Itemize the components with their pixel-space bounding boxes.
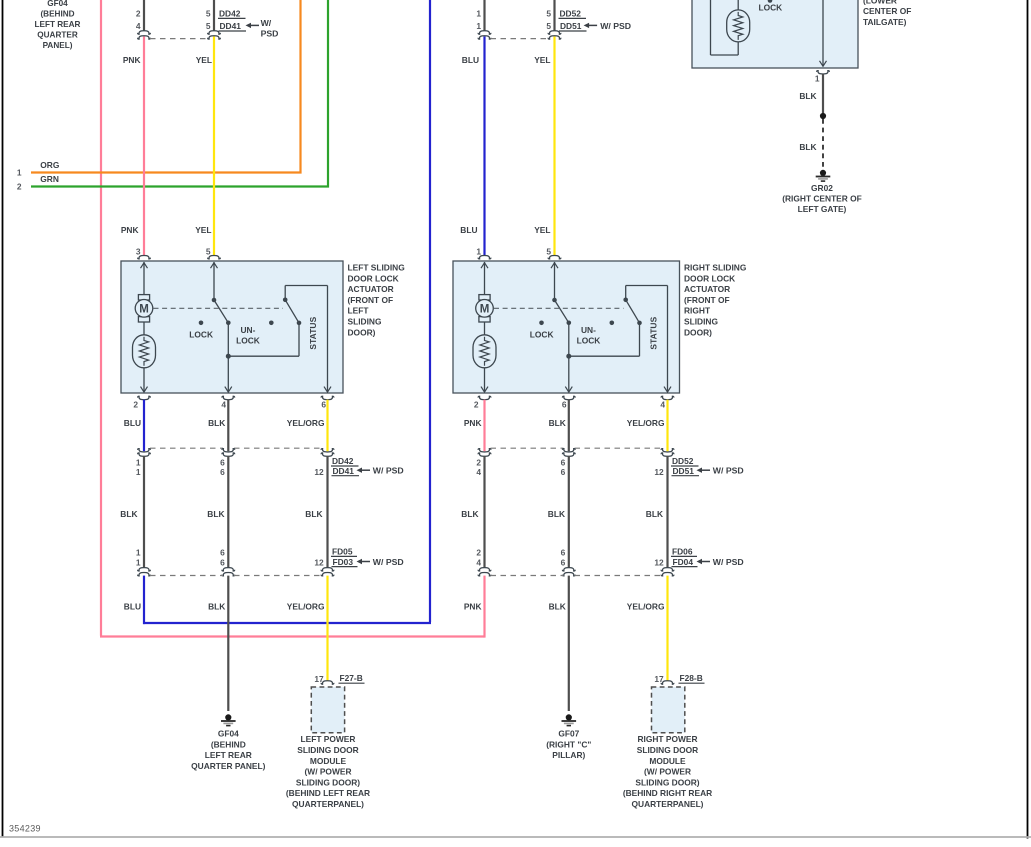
svg-text:YEL: YEL [195, 225, 211, 235]
wire BLK dashed to GR02 [822, 119, 824, 168]
svg-text:W/ PSD: W/ PSD [713, 466, 744, 476]
pin 5 label right [546, 246, 551, 256]
svg-text:LEFT POWER: LEFT POWER [301, 734, 356, 744]
connector row FD05 glyph b [222, 568, 235, 576]
lock switch pivot right [552, 298, 557, 303]
svg-text:DOOR): DOOR) [348, 327, 376, 337]
label YEL/ORG below right box [627, 418, 665, 428]
left actuator pin3 connector [138, 256, 151, 259]
motor M1 [135, 295, 153, 322]
wire YEL/ORG pin4 to DD52 [666, 400, 668, 452]
svg-text:QUARTERPANEL): QUARTERPANEL) [292, 799, 364, 809]
svg-text:(FRONT OF: (FRONT OF [684, 295, 730, 305]
pin 4 label [221, 399, 226, 409]
label GRN [40, 174, 59, 184]
svg-text:BLU: BLU [124, 601, 141, 611]
wire BLK harness 2 [227, 456, 229, 568]
svg-text:FD05: FD05 [332, 547, 353, 557]
svg-text:6: 6 [561, 457, 566, 467]
svg-text:YEL/ORG: YEL/ORG [627, 601, 665, 611]
svg-text:BLK: BLK [120, 509, 137, 519]
wire BLK to ground GF04 [227, 576, 229, 711]
svg-text:ACTUATOR: ACTUATOR [684, 284, 730, 294]
page border left [2, 0, 4, 838]
tailgate pin1 connector [817, 71, 830, 74]
svg-text:1: 1 [476, 9, 481, 19]
svg-text:PANEL): PANEL) [43, 41, 73, 50]
svg-text:GF04: GF04 [218, 729, 239, 739]
wire YEL/ORG to F27-B [326, 576, 328, 681]
status open dot [269, 321, 274, 326]
wire BLK harness 3 [326, 456, 328, 568]
svg-text:LEFT SLIDING: LEFT SLIDING [348, 263, 405, 273]
svg-text:FD04: FD04 [673, 557, 694, 567]
connector row FD05 dashes [150, 575, 322, 577]
svg-text:1: 1 [476, 246, 481, 256]
svg-text:(RIGHT "C": (RIGHT "C" [546, 739, 591, 749]
right sliding door lock actuator body [453, 261, 680, 393]
wire PNK right riser x484.5 [483, 576, 485, 638]
label YEL/ORG to F27-B [287, 601, 325, 611]
connector name F27-B [339, 673, 365, 683]
label PNK bottom [464, 601, 482, 611]
svg-text:5: 5 [546, 246, 551, 256]
connector name DD52/DD51 [671, 456, 699, 476]
connector row DD42 glyph a [138, 449, 151, 457]
W/ PSD tag for DD41 [246, 18, 279, 39]
connector row DD52 glyph c [661, 449, 674, 457]
svg-text:PNK: PNK [464, 601, 482, 611]
svg-text:BLU: BLU [460, 225, 477, 235]
wire BLK harness 1 [143, 456, 145, 568]
svg-text:STATUS: STATUS [648, 316, 658, 349]
terminal 2 label [17, 181, 22, 191]
connector half C1 (pins 2/4) top of pink wire [136, 0, 151, 39]
label YEL upper-left [196, 55, 212, 65]
mechanical linkage dashes [154, 307, 284, 309]
connector row FD05 glyph c [321, 568, 334, 576]
svg-text:GF04: GF04 [47, 0, 68, 8]
W/ PSD tag row FD05 [357, 557, 404, 567]
wire PNK left vertical x101 [100, 0, 485, 637]
connector row DD52 glyph b [562, 449, 575, 457]
right actuator pin2 connector [478, 396, 491, 399]
wire ORG [31, 0, 302, 173]
label YEL above right box [534, 225, 550, 235]
svg-text:354239: 354239 [9, 824, 41, 834]
junction J2 [566, 354, 571, 359]
svg-text:SLIDING DOOR): SLIDING DOOR) [296, 777, 360, 787]
status contact dot [297, 321, 302, 326]
svg-text:6: 6 [561, 467, 566, 477]
svg-text:LOCK: LOCK [236, 336, 260, 346]
ground GF07 [562, 714, 577, 725]
svg-text:DD52: DD52 [560, 9, 582, 19]
svg-text:GF07: GF07 [558, 729, 579, 739]
left actuator pin2 connector [138, 396, 151, 399]
connector row FD05 glyph a [138, 568, 151, 576]
label BLK tailgate lower [799, 142, 816, 152]
svg-text:FD06: FD06 [672, 547, 693, 557]
svg-text:6: 6 [220, 547, 225, 557]
wire BLK to ground GF07 [568, 576, 570, 711]
wire BLK harness 5 [568, 456, 570, 568]
tailgate output wire + arrow [820, 0, 827, 66]
status feed wire right [626, 286, 671, 393]
svg-text:5: 5 [546, 9, 551, 19]
svg-text:LOCK: LOCK [577, 336, 601, 346]
wire YEL/ORG to F28-B [666, 576, 668, 681]
svg-text:(W/ POWER: (W/ POWER [305, 767, 352, 777]
svg-text:4: 4 [221, 399, 226, 409]
svg-text:5: 5 [206, 246, 211, 256]
svg-text:DD52: DD52 [672, 456, 694, 466]
wire BLU vertical x430 [143, 0, 431, 623]
pin 5 label [206, 246, 211, 256]
lock switch feed + arrow [211, 262, 218, 300]
wire BLU pin2 to DD42 [143, 400, 145, 452]
svg-text:QUARTERPANEL): QUARTERPANEL) [632, 799, 704, 809]
pin 1 label tailgate [815, 73, 820, 83]
svg-text:DOOR): DOOR) [684, 327, 712, 337]
svg-text:BLU: BLU [124, 418, 141, 428]
svg-text:12: 12 [654, 467, 664, 477]
status switch pivot right [623, 298, 628, 303]
right module caption [623, 734, 712, 809]
label BLK below right box [549, 418, 566, 428]
svg-text:TAILGATE): TAILGATE) [863, 17, 907, 27]
label LOCK tailgate [759, 3, 783, 13]
label BLK to GF04 [208, 601, 225, 611]
svg-text:6: 6 [220, 557, 225, 567]
right actuator pin1 connector [478, 256, 491, 259]
connector DD52/DD51 top of right yellow wire [546, 0, 586, 39]
svg-text:ORG: ORG [40, 160, 59, 170]
ground GF07 caption [546, 729, 591, 761]
pin 2 label right [474, 399, 479, 409]
motor M1 return wire + arrow [141, 368, 148, 392]
svg-text:1: 1 [136, 547, 141, 557]
row DD52 pin labels [476, 457, 664, 477]
figure number 354239 [9, 824, 41, 834]
svg-text:MODULE: MODULE [310, 756, 347, 766]
status branch wire [228, 325, 299, 356]
svg-text:BLK: BLK [799, 142, 816, 152]
svg-text:LOCK: LOCK [759, 3, 783, 13]
svg-text:4: 4 [660, 399, 665, 409]
svg-text:(BEHIND RIGHT REAR: (BEHIND RIGHT REAR [623, 788, 712, 798]
svg-text:RIGHT: RIGHT [684, 306, 711, 316]
label YEL above left box [195, 225, 211, 235]
svg-text:6: 6 [220, 457, 225, 467]
svg-text:17: 17 [654, 674, 664, 684]
svg-text:SLIDING DOOR: SLIDING DOOR [297, 745, 358, 755]
connector name DD42/DD41 [331, 456, 359, 476]
svg-text:M: M [139, 303, 149, 315]
svg-text:YEL/ORG: YEL/ORG [287, 601, 325, 611]
module F27-B pin connector [321, 681, 334, 684]
motor M2 [476, 295, 494, 322]
svg-text:2: 2 [474, 399, 479, 409]
label YEL upper-right [534, 55, 550, 65]
svg-text:W/ PSD: W/ PSD [713, 557, 744, 567]
svg-text:M: M [480, 303, 490, 315]
row FD06 pin labels [476, 547, 664, 567]
left actuator caption [348, 263, 405, 338]
wire BLK pin6 to DD52 [568, 400, 570, 452]
status open dot right [610, 321, 615, 326]
right actuator pin6 connector [562, 396, 575, 399]
svg-text:W/: W/ [261, 18, 272, 28]
svg-text:YEL: YEL [534, 225, 550, 235]
label BLK to GF07 [549, 601, 566, 611]
svg-text:BLK: BLK [799, 91, 816, 101]
motor M2 feed wire + arrow [481, 262, 488, 295]
terminal 1 label [17, 167, 22, 177]
ground GR02 caption [782, 183, 862, 214]
svg-text:F27-B: F27-B [340, 673, 363, 683]
svg-text:12: 12 [654, 557, 664, 567]
label YEL/ORG below left box [287, 418, 325, 428]
svg-text:DD42: DD42 [219, 9, 241, 19]
wire GRN [31, 0, 329, 187]
label BLK below left box [208, 418, 225, 428]
status feed wire [285, 286, 331, 393]
svg-text:YEL/ORG: YEL/ORG [287, 418, 325, 428]
wire YEL to left actuator pin 5 [213, 37, 215, 256]
junction J1 [226, 354, 231, 359]
svg-text:(BEHIND: (BEHIND [40, 10, 74, 19]
position sensor resistor right [473, 335, 496, 368]
svg-text:(RIGHT CENTER OF: (RIGHT CENTER OF [782, 194, 862, 204]
svg-text:QUARTER: QUARTER [37, 31, 78, 40]
connector DD42/DD41 top of left yellow wire [206, 0, 246, 39]
label BLU upper [462, 55, 479, 65]
connector row FD06 glyph a [478, 568, 491, 576]
svg-text:DOOR LOCK: DOOR LOCK [684, 273, 735, 283]
svg-text:PNK: PNK [464, 418, 482, 428]
svg-text:1: 1 [476, 21, 481, 31]
svg-text:CENTER OF: CENTER OF [863, 6, 911, 16]
pin 3 label [136, 246, 141, 256]
connector name FD05/FD03 [331, 547, 358, 567]
left power sliding door module body [311, 687, 344, 733]
status branch wire right [569, 325, 640, 356]
switch output wire [225, 323, 232, 392]
row DD42 pin labels [136, 457, 324, 477]
connector row DD52 glyph a [478, 449, 491, 457]
status switch blade right [626, 300, 640, 323]
page border right [1027, 0, 1029, 839]
svg-text:6: 6 [321, 399, 326, 409]
wire BLK tailgate [822, 74, 824, 113]
W/ PSD tag for DD51 [584, 21, 631, 31]
pin 17 label right module [654, 674, 664, 684]
svg-text:5: 5 [206, 9, 211, 19]
pin 4 label right bottom [660, 399, 665, 409]
motor M2 return wire + arrow [481, 368, 488, 392]
left actuator pin5 connector [208, 256, 221, 259]
svg-text:BLU: BLU [462, 55, 479, 65]
svg-text:17: 17 [314, 674, 324, 684]
splice junction [820, 113, 826, 119]
svg-text:6: 6 [561, 547, 566, 557]
connector half (pins 1/1) top of right blue wire [476, 0, 491, 39]
svg-text:PNK: PNK [121, 225, 139, 235]
svg-text:1: 1 [815, 73, 820, 83]
svg-text:BLK: BLK [549, 418, 566, 428]
ground GR02 [816, 170, 831, 181]
connector row FD06 glyph c [661, 568, 674, 576]
left sliding door lock actuator body [121, 261, 343, 393]
lock switch blade [214, 300, 228, 323]
wire YEL to right actuator pin 5 [553, 37, 555, 256]
position sensor resistor left [133, 335, 156, 368]
wire BLK harness 4 [483, 456, 485, 568]
svg-text:W/ PSD: W/ PSD [373, 557, 404, 567]
svg-text:LEFT REAR: LEFT REAR [205, 750, 252, 760]
svg-text:2: 2 [476, 457, 481, 467]
pin 6 label [321, 399, 326, 409]
connector row DD42 dashes [150, 447, 322, 449]
svg-text:(BEHIND LEFT REAR: (BEHIND LEFT REAR [286, 788, 370, 798]
lock switch feed right + arrow [551, 262, 558, 300]
svg-text:4: 4 [136, 21, 141, 31]
svg-text:12: 12 [314, 467, 324, 477]
svg-text:UN-: UN- [581, 325, 596, 335]
svg-text:4: 4 [476, 557, 481, 567]
connector name F28-B [679, 673, 705, 683]
svg-text:1: 1 [17, 167, 22, 177]
svg-text:W/ PSD: W/ PSD [373, 466, 404, 476]
svg-text:(FRONT OF: (FRONT OF [348, 295, 394, 305]
svg-text:YEL/ORG: YEL/ORG [627, 418, 665, 428]
wire BLU to right actuator pin 1 [483, 37, 485, 256]
svg-text:LOCK: LOCK [189, 329, 213, 339]
svg-text:GR02: GR02 [811, 183, 833, 193]
svg-text:1: 1 [136, 457, 141, 467]
svg-text:BLK: BLK [549, 601, 566, 611]
harness dashed link top-right [491, 38, 549, 40]
svg-text:(W/ POWER: (W/ POWER [644, 767, 691, 777]
left actuator pin6 connector [321, 396, 334, 399]
svg-text:YEL: YEL [196, 55, 212, 65]
pin 2 label [133, 399, 138, 409]
svg-text:6: 6 [220, 467, 225, 477]
svg-text:LOCK: LOCK [530, 329, 554, 339]
label BLK tailgate upper [799, 91, 816, 101]
svg-text:BLK: BLK [461, 509, 478, 519]
motor M1 feed wire + arrow [141, 262, 148, 295]
ground label GF04 (behind left rear quarter panel) [35, 0, 81, 50]
svg-text:LEFT REAR: LEFT REAR [35, 20, 81, 29]
svg-text:PSD: PSD [261, 29, 279, 39]
svg-text:5: 5 [546, 21, 551, 31]
tailgate lamp loop wire [711, 0, 739, 55]
W/ PSD tag row FD06 [697, 557, 744, 567]
svg-text:BLK: BLK [305, 509, 322, 519]
svg-text:(BEHIND: (BEHIND [211, 739, 246, 749]
svg-text:BLK: BLK [208, 601, 225, 611]
tailgate lock actuator body [692, 0, 858, 68]
svg-text:ACTUATOR: ACTUATOR [348, 284, 394, 294]
module F28-B pin connector [661, 681, 674, 684]
wire BLK pin4 to DD42 [227, 400, 229, 452]
svg-text:DOOR LOCK: DOOR LOCK [348, 273, 399, 283]
svg-text:6: 6 [562, 399, 567, 409]
svg-text:PILLAR): PILLAR) [552, 750, 585, 760]
svg-text:3: 3 [136, 246, 141, 256]
svg-text:STATUS: STATUS [308, 316, 318, 349]
switch output wire right [565, 323, 572, 392]
label STATUS right [648, 316, 658, 349]
right actuator pin4 connector [661, 396, 674, 399]
connector row FD06 dashes [491, 575, 662, 577]
tailgate caption (lower center of tailgate) [863, 0, 911, 27]
tailgate position resistor [727, 10, 750, 42]
label PNK below right box [464, 418, 482, 428]
connector row DD42 glyph b [222, 449, 235, 457]
mechanical linkage dashes right [494, 307, 624, 309]
svg-text:RIGHT POWER: RIGHT POWER [637, 734, 697, 744]
svg-text:2: 2 [17, 181, 22, 191]
label LOCK [189, 329, 213, 339]
label PNK upper [123, 55, 141, 65]
svg-text:5: 5 [206, 21, 211, 31]
svg-text:LEFT GATE): LEFT GATE) [798, 204, 847, 214]
right actuator caption [684, 263, 746, 338]
label LOCK right [530, 329, 554, 339]
svg-text:DD42: DD42 [332, 456, 354, 466]
svg-text:W/ PSD: W/ PSD [600, 21, 631, 31]
lock switch blade right [555, 300, 569, 323]
pin 17 label left module [314, 674, 324, 684]
W/ PSD tag row DD42 [357, 466, 404, 476]
svg-text:2: 2 [133, 399, 138, 409]
connector row DD52 dashes [491, 447, 662, 449]
wire BLU left riser x144 [143, 576, 145, 625]
lock contact dot right [539, 321, 544, 326]
svg-text:FD03: FD03 [333, 557, 354, 567]
svg-text:BLK: BLK [646, 509, 663, 519]
row FD05 pin labels [136, 547, 324, 567]
label BLU above box [460, 225, 477, 235]
svg-text:DD41: DD41 [333, 466, 355, 476]
harness dashed link top-left [150, 38, 208, 40]
svg-text:UN-: UN- [241, 325, 256, 335]
right actuator pin5 connector [548, 256, 561, 259]
svg-text:GRN: GRN [40, 174, 59, 184]
label BLU bottom [124, 601, 141, 611]
svg-text:BLK: BLK [207, 509, 224, 519]
svg-text:LEFT: LEFT [348, 306, 370, 316]
label PNK above box [121, 225, 139, 235]
svg-text:SLIDING DOOR: SLIDING DOOR [637, 745, 698, 755]
unlock contact dot right [567, 321, 572, 326]
svg-text:1: 1 [136, 467, 141, 477]
svg-text:DD51: DD51 [673, 466, 695, 476]
svg-text:QUARTER PANEL): QUARTER PANEL) [191, 761, 265, 771]
motor M2 to lamp wire [484, 322, 486, 335]
svg-text:DD51: DD51 [560, 21, 582, 31]
svg-text:BLK: BLK [548, 509, 565, 519]
status contact dot right [637, 321, 642, 326]
label BLK harness row [120, 509, 663, 519]
svg-text:SLIDING: SLIDING [684, 317, 718, 327]
svg-text:SLIDING DOOR): SLIDING DOOR) [635, 777, 699, 787]
svg-text:2: 2 [476, 547, 481, 557]
svg-text:6: 6 [561, 557, 566, 567]
